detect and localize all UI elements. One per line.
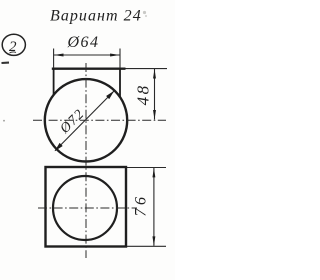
top view: cylinder circle bbox=[53, 176, 117, 240]
dim 76 value label bbox=[133, 194, 150, 217]
top view horizontal centerline bbox=[38, 207, 137, 209]
front view: cylinder top face edge bbox=[52, 68, 126, 70]
svg-text:76: 76 bbox=[133, 194, 150, 217]
paper speck left bbox=[3, 120, 5, 122]
dim Ø64 dimension line bbox=[54, 54, 120, 56]
dim Ø72 diagonal dimension line bbox=[55, 91, 114, 151]
title Вариант 24 bbox=[50, 8, 142, 25]
dim Ø72 value label bbox=[57, 107, 88, 138]
dim 76 bottom arrowhead bbox=[152, 236, 155, 246]
shared vertical centerline bbox=[85, 63, 87, 258]
svg-text:48: 48 bbox=[133, 83, 152, 105]
dim 76 bottom extension line bbox=[127, 245, 166, 247]
dim 48 dimension line bbox=[154, 69, 156, 120]
variant badge circle bbox=[2, 34, 25, 55]
dim Ø72 lower arrowhead bbox=[55, 143, 63, 151]
dim Ø64 left arrowhead bbox=[54, 54, 64, 57]
svg-text:Ø64: Ø64 bbox=[67, 34, 100, 51]
front view horizontal centerline bbox=[33, 119, 166, 121]
svg-text:Вариант 24: Вариант 24 bbox=[50, 8, 142, 25]
front view: cylinder right edge bbox=[119, 69, 121, 98]
dim 48 bottom arrowhead bbox=[153, 110, 156, 120]
dim Ø64 right arrowhead bbox=[110, 54, 120, 57]
dim Ø72 upper arrowhead bbox=[106, 91, 114, 99]
top view: square prism outline bbox=[46, 167, 127, 247]
dim 76 top arrowhead bbox=[152, 168, 155, 178]
paper speck top right bbox=[143, 11, 147, 17]
dim Ø64 value label bbox=[67, 34, 100, 51]
front view: cylinder left edge bbox=[53, 69, 55, 96]
front view: sphere outline circle bbox=[45, 79, 127, 161]
variant badge digit 2 bbox=[9, 39, 17, 55]
stray pencil dash bbox=[2, 62, 10, 65]
dim 48 value label bbox=[133, 83, 152, 105]
extension line from top face to 48 dim bbox=[126, 68, 168, 70]
dim 76 dimension line bbox=[153, 168, 155, 246]
dim Ø64 left extension line bbox=[53, 49, 55, 69]
dim 48 top arrowhead bbox=[153, 69, 156, 79]
dim 76 top extension line bbox=[127, 167, 166, 169]
dim Ø64 right extension line bbox=[119, 49, 121, 69]
